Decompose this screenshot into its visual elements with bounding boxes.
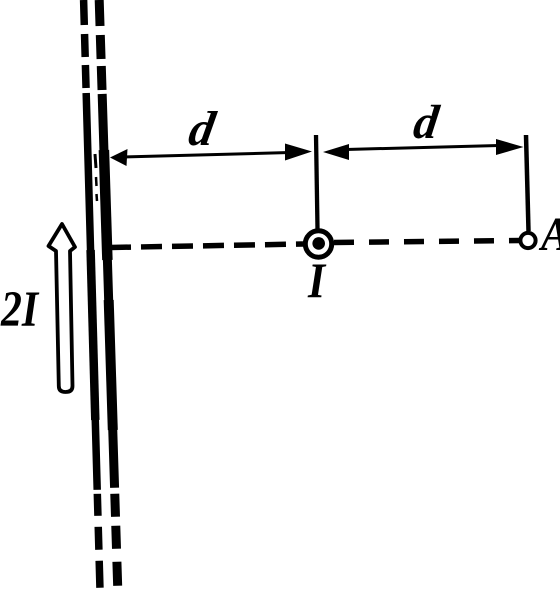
svg-text:I: I <box>307 253 327 308</box>
svg-text:A: A <box>538 207 560 261</box>
svg-text:2I: 2I <box>0 281 40 338</box>
